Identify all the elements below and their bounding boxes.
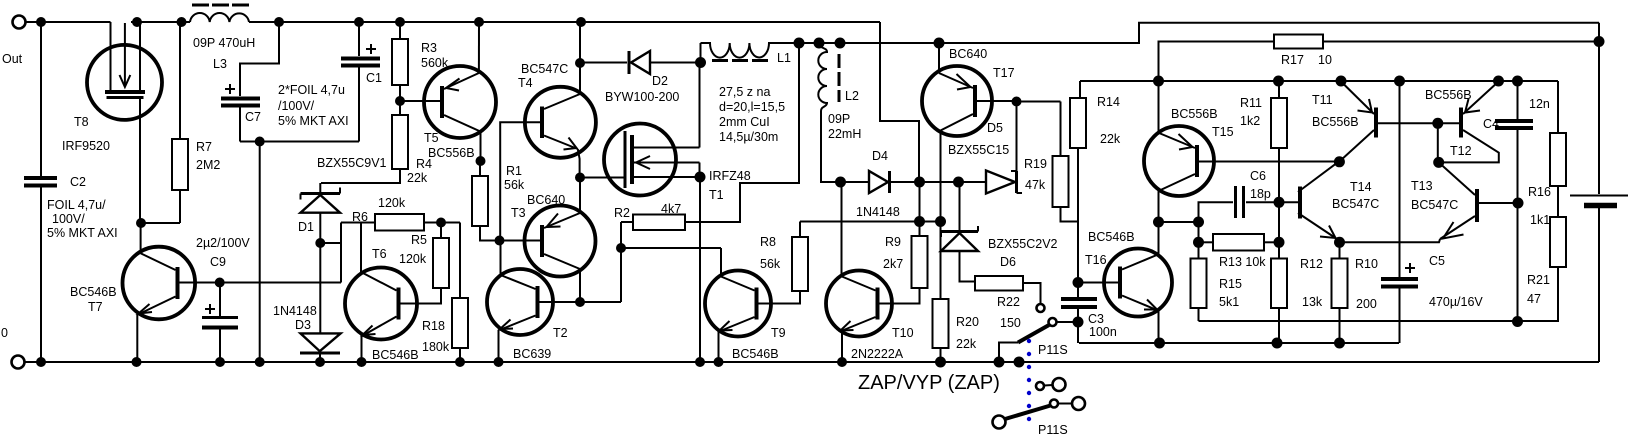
node D2 / L1 / T1 drain (695, 57, 706, 68)
svg-text:09P 470uH: 09P 470uH (193, 36, 255, 50)
wire top rail main (131, 21, 190, 23)
svg-text:C9: C9 (210, 255, 226, 269)
svg-text:BC546B: BC546B (732, 347, 779, 361)
svg-text:10: 10 (1318, 53, 1332, 67)
svg-text:2*FOIL 4,7u: 2*FOIL 4,7u (278, 83, 345, 97)
resistor R21 (1550, 217, 1566, 267)
node T1 gate / T4 emitter / T3 emitter (575, 173, 585, 183)
wire internal ground rail (1079, 342, 1399, 344)
transistor T9 (BC546B) (705, 271, 771, 337)
node T17 collector / R20 (935, 216, 946, 227)
svg-text:2µ2/100V: 2µ2/100V (196, 236, 250, 250)
transistor T2 (BC639) (487, 269, 553, 335)
node C6 / R11 / T14 base (1274, 197, 1285, 208)
svg-text:1k1: 1k1 (1530, 213, 1550, 227)
node L2 / D4 / T10 collector (835, 177, 846, 188)
capacitor C9 (215, 278, 225, 288)
svg-text:P11S: P11S (1038, 423, 1068, 437)
inductor L2 (818, 43, 840, 182)
svg-text:1N4148: 1N4148 (856, 205, 900, 219)
svg-text:5% MKT AXI: 5% MKT AXI (278, 114, 349, 128)
svg-text:100n: 100n (1089, 325, 1117, 339)
resistor R1 (476, 156, 486, 166)
svg-text:0: 0 (1, 326, 8, 340)
svg-text:180k: 180k (422, 340, 450, 354)
wire top rail left (41, 21, 111, 23)
svg-text:IRFZ48: IRFZ48 (709, 169, 751, 183)
svg-text:R22: R22 (997, 295, 1020, 309)
resistor R22 (975, 276, 1023, 291)
svg-text:T15: T15 (1212, 125, 1234, 139)
svg-text:R12: R12 (1300, 257, 1323, 271)
svg-text:BC556B: BC556B (1171, 107, 1218, 121)
svg-text:T1: T1 (709, 188, 724, 202)
capacitor C4 (1517, 81, 1519, 119)
transistor T4 (BC547C) (525, 87, 596, 158)
diode D2 (BYW100-200) (580, 62, 627, 64)
wire C7/C1 ground link (240, 141, 359, 143)
node R2/T9 collector branch (616, 243, 626, 253)
svg-text:27,5 z na: 27,5 z na (719, 85, 770, 99)
svg-text:C4: C4 (1483, 117, 1499, 131)
svg-text:R9: R9 (885, 235, 901, 249)
svg-text:1k2: 1k2 (1240, 114, 1260, 128)
svg-text:L3: L3 (213, 57, 227, 71)
svg-text:56k: 56k (504, 178, 525, 192)
svg-text:BC546B: BC546B (1088, 230, 1135, 244)
svg-text:R3: R3 (421, 41, 437, 55)
svg-text:BC556B: BC556B (1425, 88, 1472, 102)
resistor R9 (912, 236, 928, 288)
node T15 base / T11 coll / T14 coll (1334, 156, 1345, 167)
svg-text:4k7: 4k7 (661, 202, 681, 216)
zener D1 (BZX55C9V1) (319, 183, 321, 192)
wire R17 feed line (1159, 42, 1275, 82)
svg-text:R19: R19 (1024, 157, 1047, 171)
svg-text:FOIL 4,7u/: FOIL 4,7u/ (47, 198, 106, 212)
svg-text:T8: T8 (74, 115, 89, 129)
svg-text:ZAP/VYP (ZAP): ZAP/VYP (ZAP) (858, 372, 1000, 394)
svg-text:150: 150 (1000, 316, 1021, 330)
svg-text:120k: 120k (399, 252, 427, 266)
resistor R3 (395, 17, 405, 27)
transistor T1 (IRFZ48 N-MOSFET) (604, 124, 676, 196)
svg-text:12n: 12n (1529, 97, 1550, 111)
svg-text:D6: D6 (1000, 255, 1016, 269)
svg-text:IRF9520: IRF9520 (62, 139, 110, 153)
svg-text:T7: T7 (88, 300, 103, 314)
inductor L1 (700, 43, 702, 63)
svg-text:R20: R20 (956, 315, 979, 329)
capacitor C2 (40, 22, 42, 176)
mechanical link dotted (1027, 339, 1031, 421)
resistor R5 (440, 223, 442, 239)
switch P11S lower (1036, 382, 1044, 390)
svg-text:22mH: 22mH (828, 127, 861, 141)
node bottom-left junction (36, 357, 46, 367)
svg-text:18p: 18p (1250, 187, 1271, 201)
svg-text:D5: D5 (987, 121, 1003, 135)
svg-text:T5: T5 (424, 131, 439, 145)
transistor T7 (BC546B) (123, 247, 196, 320)
resistor R17 (1274, 35, 1323, 49)
svg-text:R1: R1 (506, 164, 522, 178)
wire bottom rail (41, 361, 1599, 363)
svg-text:56k: 56k (760, 257, 781, 271)
node R6/R5 (436, 218, 446, 228)
svg-text:2mm CuI: 2mm CuI (719, 115, 770, 129)
transistor T5 (BC556B) (424, 66, 496, 138)
resistor R19 (1017, 101, 1061, 103)
svg-text:T10: T10 (892, 326, 914, 340)
svg-text:R18: R18 (422, 319, 445, 333)
svg-text:R13 10k: R13 10k (1219, 255, 1266, 269)
svg-text:22k: 22k (1100, 132, 1121, 146)
svg-text:200: 200 (1356, 297, 1377, 311)
node T3 collector / T2 base (575, 297, 585, 307)
resistor R15 (1198, 222, 1200, 259)
svg-text:5k1: 5k1 (1219, 295, 1239, 309)
resistor R14 (1079, 81, 1081, 98)
svg-text:R15: R15 (1219, 277, 1242, 291)
svg-text:BC556B: BC556B (1312, 115, 1359, 129)
node T12 coll / T13 coll (1433, 157, 1444, 168)
svg-text:22k: 22k (956, 337, 977, 351)
node R9 top (914, 216, 925, 227)
transistor T15 (BC556B) (1144, 126, 1214, 196)
svg-text:T17: T17 (993, 66, 1015, 80)
svg-text:47k: 47k (1025, 178, 1046, 192)
svg-text:/100V/: /100V/ (278, 99, 315, 113)
wire top rail to D4 node (880, 22, 919, 182)
svg-text:L1: L1 (777, 51, 791, 65)
svg-text:R8: R8 (760, 235, 776, 249)
transistor T3 (BC640) (525, 206, 596, 277)
transistor T10 (2N2222A) (826, 271, 892, 337)
svg-text:120k: 120k (378, 196, 406, 210)
node D4 cathode / R9 (914, 177, 925, 188)
svg-text:D4: D4 (872, 149, 888, 163)
wire internal V+ rail (1080, 80, 1558, 82)
svg-text:C5: C5 (1429, 254, 1445, 268)
svg-text:R5: R5 (411, 233, 427, 247)
transistor T14 (BC547C) (1298, 187, 1302, 219)
capacitor C1 (354, 17, 364, 27)
svg-text:D1: D1 (298, 220, 314, 234)
capacitor C5 (1399, 81, 1401, 277)
svg-text:R6: R6 (352, 210, 368, 224)
svg-text:BYW100-200: BYW100-200 (605, 90, 679, 104)
node battery plus (1594, 36, 1605, 47)
terminal Out (13, 16, 26, 29)
svg-text:BC546B: BC546B (70, 285, 117, 299)
capacitor C7 (274, 17, 284, 27)
svg-text:100V/: 100V/ (52, 212, 85, 226)
inductor L3 (177, 17, 187, 27)
svg-text:470µ/16V: 470µ/16V (1429, 295, 1483, 309)
svg-text:R21: R21 (1527, 273, 1550, 287)
node D2 / T4 collector (575, 58, 585, 68)
svg-text:T13: T13 (1411, 179, 1433, 193)
svg-text:T3: T3 (511, 206, 526, 220)
diode D3 (1N4148) (301, 333, 341, 351)
node D5 anode / T17 collector net / D6 (953, 177, 964, 188)
transistor T6 (BC546B) (345, 268, 417, 340)
wire T11/T12 base tie (1378, 122, 1459, 124)
svg-text:T4: T4 (518, 76, 533, 90)
wire astable feed line (800, 221, 941, 223)
svg-text:1N4148: 1N4148 (273, 304, 317, 318)
svg-text:BC640: BC640 (527, 193, 565, 207)
svg-text:d=20,l=15,5: d=20,l=15,5 (719, 100, 785, 114)
svg-text:Out: Out (2, 52, 23, 66)
svg-text:C1: C1 (366, 71, 382, 85)
node L1 dots (794, 38, 805, 49)
svg-text:T11: T11 (1312, 93, 1333, 107)
svg-text:T9: T9 (771, 326, 786, 340)
resistor R13 (1199, 241, 1214, 243)
svg-text:BC547C: BC547C (1332, 197, 1379, 211)
wire T4 collector to top rail (576, 17, 586, 27)
svg-text:D3: D3 (295, 318, 311, 332)
node T13 base / C4 (1513, 198, 1524, 209)
svg-text:C3: C3 (1088, 312, 1104, 326)
node C4 / ground line (1512, 316, 1523, 327)
resistor R2 (633, 215, 685, 231)
svg-text:C2: C2 (70, 175, 86, 189)
transistor T8 (IRF9520 P-MOSFET) (87, 45, 162, 120)
transistor T11 (BC556B) (1374, 108, 1378, 138)
resistor R8 (799, 222, 801, 238)
svg-text:BC547C: BC547C (521, 62, 568, 76)
wire +V line after L1 (798, 23, 1599, 43)
svg-text:2k7: 2k7 (883, 257, 903, 271)
node T3 base / R1 / T2 collector (495, 236, 505, 246)
transistor T12 (BC556B) (1459, 108, 1463, 138)
svg-text:T14: T14 (1350, 180, 1372, 194)
svg-text:13k: 13k (1302, 295, 1323, 309)
svg-text:T2: T2 (553, 326, 568, 340)
svg-text:R14: R14 (1097, 95, 1120, 109)
node R13 left (1193, 237, 1204, 248)
svg-text:BC547C: BC547C (1411, 198, 1458, 212)
zener D5 (BZX55C15) (986, 171, 1015, 194)
zener D6 (BZX55C2V2) (959, 182, 961, 230)
svg-text:47: 47 (1527, 292, 1541, 306)
node T8 gate / R7 / T7 collector (136, 218, 146, 228)
svg-text:R11: R11 (1240, 96, 1262, 110)
resistor R16 (1557, 81, 1559, 133)
transistor T13 (BC547C) (1475, 189, 1479, 222)
terminal 0 (12, 356, 25, 369)
switch P11S upper (1037, 304, 1045, 312)
battery (1570, 195, 1628, 197)
svg-text:2M2: 2M2 (196, 158, 220, 172)
svg-text:BZX55C9V1: BZX55C9V1 (317, 156, 387, 170)
svg-text:T12: T12 (1450, 144, 1472, 158)
wire D1 to R6 branch (340, 223, 342, 283)
svg-text:R7: R7 (196, 140, 212, 154)
transistor T17 (BC640) (922, 66, 992, 136)
svg-text:09P: 09P (828, 112, 850, 126)
svg-text:R10: R10 (1355, 257, 1378, 271)
svg-text:D2: D2 (652, 74, 668, 88)
svg-text:R2: R2 (614, 206, 630, 220)
node R3/R4/T5 base (395, 96, 405, 106)
svg-text:2N2222A: 2N2222A (851, 347, 904, 361)
diode D4 (1N4148) (841, 181, 870, 183)
svg-text:BZX55C15: BZX55C15 (948, 143, 1009, 157)
svg-text:T16: T16 (1085, 253, 1107, 267)
svg-text:22k: 22k (407, 171, 428, 185)
node T15/T16 collector row (1153, 217, 1164, 228)
resistor R4 (392, 115, 408, 169)
resistor R10 (1339, 242, 1341, 258)
capacitor C6 (1199, 202, 1234, 222)
node T13/T14 emitters / R10 (1334, 237, 1345, 248)
svg-text:BC546B: BC546B (372, 348, 419, 362)
svg-text:P11S: P11S (1038, 343, 1068, 357)
node R13 right (1274, 237, 1285, 248)
svg-text:R16: R16 (1528, 185, 1551, 199)
svg-text:BC639: BC639 (513, 347, 551, 361)
svg-text:14,5µ/30m: 14,5µ/30m (719, 130, 778, 144)
svg-text:C6: C6 (1250, 169, 1266, 183)
node top-left junction (36, 17, 46, 27)
svg-text:R17: R17 (1281, 53, 1304, 67)
resistor R18 (459, 223, 461, 299)
resistor R11 (1278, 81, 1280, 98)
svg-text:BC640: BC640 (949, 47, 987, 61)
svg-text:C7: C7 (245, 110, 261, 124)
svg-text:BZX55C2V2: BZX55C2V2 (988, 237, 1058, 251)
transistor T16 (BC546B) (1104, 249, 1172, 317)
svg-text:T6: T6 (372, 247, 387, 261)
resistor R20 (940, 222, 942, 300)
resistor R12 (1278, 242, 1280, 258)
svg-text:BC556B: BC556B (428, 146, 475, 160)
svg-text:5% MKT AXI: 5% MKT AXI (47, 226, 118, 240)
node T17 base / D5 / R19 (1012, 97, 1022, 107)
svg-text:L2: L2 (845, 89, 859, 103)
resistor R6 (341, 222, 375, 224)
resistor R7 (179, 22, 181, 139)
capacitor C3 (1077, 283, 1079, 298)
